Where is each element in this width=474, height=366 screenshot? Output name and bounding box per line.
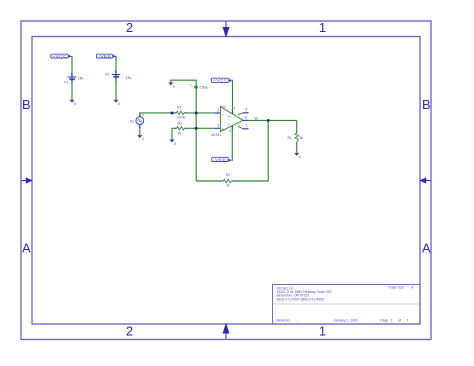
svg-text:2k: 2k: [178, 132, 182, 136]
svg-text:V-: V-: [228, 122, 231, 126]
svg-text:2: 2: [126, 324, 133, 339]
svg-text:3: 3: [217, 123, 219, 127]
svg-text:Vs: Vs: [130, 119, 134, 123]
svg-text:4: 4: [229, 129, 231, 133]
svg-text:0.5Vac: 0.5Vac: [200, 85, 208, 89]
svg-text:V+: V+: [228, 115, 232, 119]
svg-text:-VEE: -VEE: [213, 158, 226, 162]
svg-text:R1: R1: [177, 105, 181, 109]
svg-text:6: 6: [245, 116, 247, 120]
svg-text:U1: U1: [222, 105, 226, 109]
svg-text:B: B: [22, 97, 31, 112]
svg-text:1: 1: [246, 124, 248, 128]
svg-text:B: B: [422, 97, 431, 112]
svg-text:0: 0: [142, 138, 144, 142]
svg-text:-VEE: -VEE: [98, 54, 111, 58]
svg-text:C: C: [190, 84, 193, 88]
svg-text:uA741: uA741: [211, 133, 221, 137]
svg-text:Page: Page: [380, 318, 388, 322]
svg-text:(503) 671-9500 (800) 671-95: (503) 671-9500 (800) 671-9505: [277, 297, 324, 301]
svg-text:0: 0: [173, 85, 175, 89]
svg-text:0: 0: [299, 155, 301, 159]
svg-text:5: 5: [245, 108, 247, 112]
svg-text:A: A: [411, 286, 414, 290]
svg-text:2: 2: [217, 109, 219, 113]
svg-text:A: A: [22, 240, 31, 255]
svg-text:+VCC: +VCC: [52, 54, 68, 58]
svg-text:1: 1: [391, 318, 393, 322]
svg-text:Revision:: Revision:: [277, 318, 291, 322]
svg-text:7: 7: [233, 107, 235, 111]
svg-text:1: 1: [319, 324, 326, 339]
svg-text:5k: 5k: [300, 136, 304, 140]
svg-text:+VCC: +VCC: [213, 79, 229, 83]
svg-text:2: 2: [126, 20, 133, 35]
svg-text:V2: V2: [105, 72, 109, 76]
svg-text:R3: R3: [178, 121, 182, 125]
svg-text:1: 1: [407, 318, 409, 322]
svg-text:Page Size: Page Size: [389, 286, 405, 290]
svg-text:A: A: [422, 240, 431, 255]
svg-text:RL: RL: [288, 136, 292, 140]
svg-text:V1: V1: [64, 80, 68, 84]
svg-text:15v: 15v: [78, 77, 84, 81]
svg-text:January 1, 2000: January 1, 2000: [334, 318, 358, 322]
svg-text:+: +: [114, 70, 116, 74]
svg-text:-: -: [296, 318, 297, 322]
svg-text:R2: R2: [226, 173, 230, 177]
svg-text:0: 0: [74, 102, 76, 106]
svg-text:+: +: [70, 73, 72, 77]
svg-text:10.0k: 10.0k: [177, 115, 186, 119]
svg-text:of: of: [398, 318, 401, 322]
svg-text:1k: 1k: [226, 183, 230, 187]
svg-text:0: 0: [118, 102, 120, 106]
svg-text:0: 0: [174, 142, 176, 146]
svg-text:1: 1: [319, 20, 326, 35]
svg-text:Vo: Vo: [254, 116, 258, 120]
svg-text:15v: 15v: [126, 76, 132, 80]
